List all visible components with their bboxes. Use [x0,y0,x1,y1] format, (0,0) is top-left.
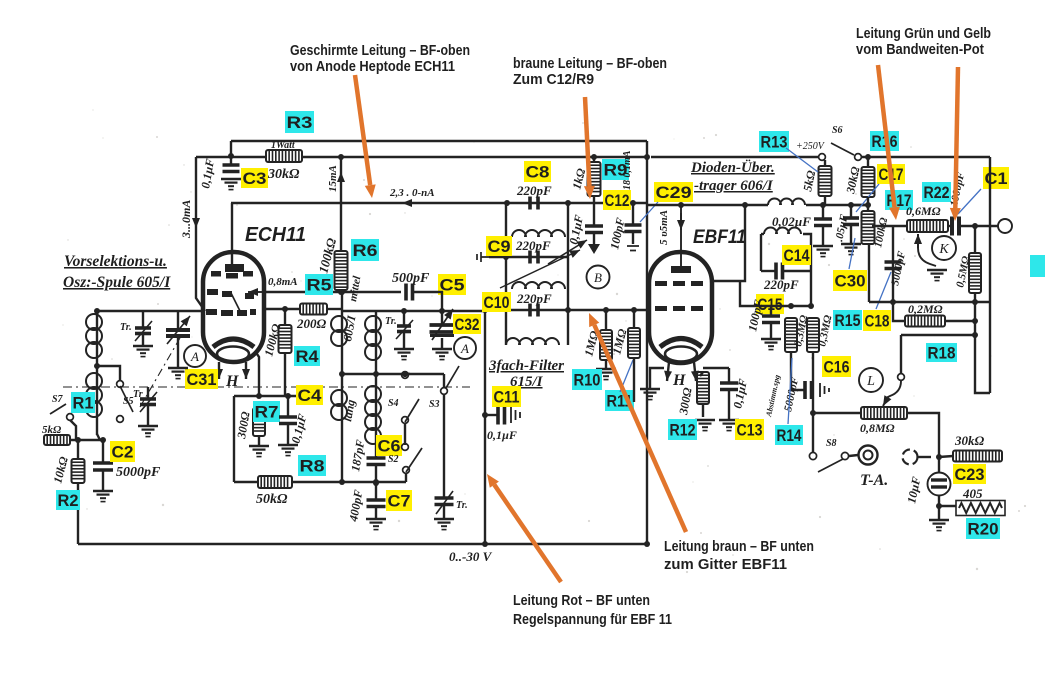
node rail342 y374 [339,371,345,377]
svg-text:ECH11: ECH11 [245,224,306,246]
current arrow 15mA [337,172,345,190]
gang circle A right [454,337,476,359]
wire row y311 mid [342,310,485,312]
tube ECH11 top cap [225,264,244,272]
wire sec loop left [760,234,762,271]
label R10 [572,369,602,390]
svg-text:C4: C4 [298,387,323,405]
tube ECH11 grid row2 [207,289,218,295]
wire coil bottom curve [97,434,100,440]
svg-text:R15: R15 [835,312,861,330]
node 0.2M right [972,318,978,324]
tube EBF11 top cap [671,205,691,273]
wire 100pF lead [770,306,772,316]
ground under varcap1 [168,368,188,379]
inductor filter1 [512,230,565,237]
switch S4 bottom [402,417,409,424]
wire trimmer2 bottom lead [147,405,149,425]
wire R11 down [633,358,635,402]
varcap1 arrow [167,316,190,344]
tube EBF11 grid dashes [655,281,667,286]
wire anode row y292 [264,291,401,293]
wire R17 lead down [868,244,870,302]
resistor R4 100kOhm [279,325,292,353]
label C23 [953,464,986,484]
svg-text:0,8MΩ: 0,8MΩ [860,421,895,435]
node C10 row left [482,307,488,313]
node rail376 join [373,479,379,485]
arrow to C12 [548,240,587,264]
wire R10 bottom [605,360,607,368]
label R6 [351,239,379,261]
node C29 top [630,200,636,206]
inductor diode secondary [764,228,801,235]
wire C12 bottom [593,233,595,245]
trimmer1 arrow [135,321,152,341]
node bus x647 [644,541,650,547]
C16 ground right [820,383,829,397]
tube ECH11 grid row3 [206,309,217,315]
wire row y305 filter to EBF [568,309,649,311]
label R4 [294,346,320,366]
resistor R7 300ohm [253,408,265,436]
wire left branch y366 [97,366,120,381]
node x823 junction [820,202,826,208]
wire C2 bottom lead [102,470,104,490]
svg-text:220pF: 220pF [515,238,551,253]
label C30 [833,270,867,291]
wire anode down to C15 row [740,281,745,306]
node 300ohm top [256,393,262,399]
wire 0.5M bottom [974,293,976,302]
switch S4 lever [405,399,419,422]
svg-text:Leitung braun – BF unten: Leitung braun – BF unten [664,538,814,555]
svg-text:C16: C16 [824,358,850,376]
wire C29 bottom [632,232,634,244]
wire R2 bottom to bus [77,483,79,544]
jack inner circle [864,451,873,460]
label C11 [492,386,521,407]
svg-text:S2: S2 [388,454,399,465]
label R22 [922,182,951,202]
wire 200ohm to coil rail [327,308,342,310]
annotation Leitung braun unten [664,538,814,573]
node C6C7 [373,480,379,486]
ground under R10 [596,369,616,380]
wire C14 left lead [761,270,776,272]
label R16 [870,131,899,151]
node input junction [75,437,81,443]
capacitor C12 0.1uF [585,226,603,233]
wire left coil rail lower [96,366,98,435]
svg-text:220pF: 220pF [763,277,799,292]
capacitor 1000pF [952,217,959,236]
inductor left lower [86,373,102,417]
switch S7 lever [50,404,66,414]
svg-text:S7: S7 [52,394,64,405]
svg-text:C1: C1 [985,170,1008,188]
ground under Tr4 [434,519,454,530]
node Tr3 tap [401,308,407,314]
wire S3 top lead [443,374,445,388]
wire jack2 to node [918,456,931,458]
wire Kbox left rail [892,226,894,302]
svg-text:T-A.: T-A. [860,472,888,489]
label C19 partial [983,167,1009,189]
svg-text:0,8mA: 0,8mA [268,276,298,288]
svg-text:C8: C8 [526,163,550,181]
variable capacitor C32 [430,325,455,332]
svg-text:R12: R12 [670,421,696,439]
tube EBF11 envelope [649,252,712,363]
svg-text:EBF11: EBF11 [693,227,746,248]
svg-text:S6: S6 [832,125,843,136]
svg-text:S5: S5 [123,396,134,407]
wire R4 top lead [284,309,286,325]
resistor R3 30kOhm 1Watt [266,150,302,162]
tube ECH11 cathode arrow left [215,362,223,379]
capacitor 0.02uF [814,219,832,226]
svg-text:B: B [594,270,602,285]
scan speckles [62,109,1026,573]
capacitor C6 187pF [367,458,386,465]
switch S2 lever [406,448,422,472]
capacitor C3 0.1uF [223,165,240,172]
wire R17 to pot rail [872,225,907,227]
svg-text:Dioden-Über.: Dioden-Über. [690,159,775,176]
C29 bottom tick [627,246,639,251]
wire 15mA drop x341 [340,157,342,292]
capacitor C18 5000pF [885,262,902,269]
pot 0.8M wiper arrow [883,395,891,406]
svg-text:0,6MΩ: 0,6MΩ [906,204,941,218]
current arrow 5mA [677,213,685,230]
ground EBF11 left [640,389,660,400]
inductor filter3 [506,338,559,345]
resistor 0.3MOhm b [807,318,819,352]
wire C13 lead [728,368,730,383]
capacitor C11 0.1uF [498,406,505,425]
inductor secondary lower [365,386,381,444]
wire trimmer1 top lead [142,311,144,327]
trimmer cap Tr2 [140,399,156,405]
node left junction y366 [94,363,100,369]
svg-text:C2: C2 [112,443,134,461]
resistor 30kOhm right [953,451,1002,462]
node filter row2 left [503,254,509,260]
label C14 [782,245,811,265]
wire S3 down [443,394,445,498]
wire left drop x196 [196,157,205,311]
svg-text:Tr.: Tr. [385,316,397,327]
svg-text:5000pF: 5000pF [116,465,161,480]
wire R16 to R17 [867,197,869,211]
svg-text:220pF: 220pF [516,291,552,306]
wire AVC vertical x975 [975,302,990,393]
wire EBF anode lead [712,205,745,281]
node x813 y413 [810,410,816,416]
resistor R20 zigzag [956,501,1005,516]
svg-text:S3: S3 [429,399,440,410]
ground under 300ohm [249,446,269,457]
capacitor C15 100pF [762,316,780,323]
svg-text:-trager 606/I: -trager 606/I [694,178,774,194]
potentiometer 0.6MOhm [907,220,948,232]
node 10uF top [936,454,942,460]
node C15 row b [808,303,814,309]
wire R9 to C12 [593,196,595,226]
tube ECH11 envelope [203,252,264,362]
wire R12 top [700,372,703,376]
wire diode row y205 [647,204,768,206]
svg-text:Regelspannung für EBF 11: Regelspannung für EBF 11 [513,611,672,628]
tube ECH11 diagonal [231,293,240,311]
resistor 0.2MOhm [905,316,945,327]
switch S6 lever [831,143,854,155]
wire input to coil [70,439,100,441]
node C11 row [482,412,488,418]
annotation Leitung rot [513,592,672,628]
svg-text:1Watt: 1Watt [271,140,296,151]
orange arrow braun unten [589,313,686,532]
capacitor C32 mid plate [430,334,454,337]
wire R11 top lead [633,310,635,328]
svg-text:220pF: 220pF [516,183,552,198]
label R2 [56,490,80,510]
node C15 row a [788,303,794,309]
switch S7 terminal [67,414,74,421]
wire 50k row [234,481,258,483]
node R6 bottom on y292 [338,289,344,295]
wire C5 to corner [413,292,442,311]
label C31 [185,369,218,389]
wire C4 lead [287,396,289,417]
svg-text:C18: C18 [865,312,890,330]
wire C3 stub [230,141,232,165]
node filter row3 right [565,307,571,313]
wiper to ground curve [918,248,936,266]
jack circle 2 [903,450,918,465]
svg-text:0,1µF: 0,1µF [487,428,517,442]
resistor 200ohm [300,304,327,315]
node rail376 y374 [373,371,379,377]
wire filter row2 [489,256,568,258]
label C32 [453,314,481,334]
capacitor C5 500pF [406,284,413,301]
C11 right hatch [511,407,520,423]
svg-text:R6: R6 [353,242,378,260]
svg-text:15mA: 15mA [327,165,339,192]
wire second rail y157 [196,156,647,158]
wire S6 to corner [861,156,990,158]
inductor filter2 [512,282,565,289]
circle L [859,368,883,392]
callout R13 [786,148,818,172]
current arrow on y203 [402,199,430,207]
right edge terminal circle [998,219,1012,233]
svg-text:C14: C14 [784,247,811,265]
node C5 corner on row [439,308,445,314]
label C13 [735,419,764,440]
label R11 [605,390,634,411]
svg-text:Tr.: Tr. [456,500,468,511]
label R3 [285,111,314,133]
svg-text:0,2MΩ: 0,2MΩ [908,302,943,316]
wire C4 bottom [287,424,289,444]
tube ECH11 heater arc [213,339,254,347]
wire trimmer1 bottom lead [142,334,144,345]
wire right rail x990 [989,157,991,393]
wire row y374 [342,373,444,375]
wire trimmer3 lead [403,311,405,326]
wire R9 top lead [593,157,595,162]
wire filter right rail [567,203,569,345]
capacitor .05uF [843,218,859,225]
wire row y205 to R16 [851,204,868,206]
switch S3 lever [446,366,459,388]
svg-text:R2: R2 [58,492,79,510]
switch S8 lever [818,459,843,472]
svg-text:C30: C30 [835,272,866,290]
label R17 [885,190,913,210]
svg-text:S4: S4 [388,398,399,409]
wire +250 rail [651,156,819,158]
label R5 [305,274,333,295]
wire C14 right lead [783,270,811,272]
label C4 [296,385,323,405]
node rail342 top [339,289,345,295]
capacitor C10 220pF [530,304,538,317]
node R16 R17 junction [865,202,871,208]
orange arrow gruen left [878,65,900,220]
wire 5k bottom lead [824,196,826,205]
switch S4 top [402,372,409,379]
svg-text:A: A [190,349,199,364]
node R11 tap [631,307,637,313]
capacitor C29 100pF [625,225,642,232]
wire left coil rail upper [96,311,98,366]
label R18 [926,343,957,362]
ground under C32 [432,349,452,360]
svg-text:C29: C29 [656,184,692,202]
capacitor C7 400pF [367,500,386,507]
label C2 [110,441,135,462]
svg-text:0..-30 V: 0..-30 V [449,549,493,564]
label R1 [71,392,95,413]
wire sec loop right [803,234,811,271]
wire R12 bottom [702,404,704,417]
resistor R10 1MOhm [600,330,612,360]
wire rail x376 [375,311,377,458]
wire C11 lead [485,414,497,416]
svg-text:C3: C3 [243,170,267,188]
tube EBF11 heater arc [660,339,702,348]
wire 10uF bottom [938,495,940,519]
tube EBF11 heater oval [665,347,697,362]
wire cap to right [959,225,998,227]
callout C18 [876,272,891,309]
svg-text:vom Bandweiten-Pot: vom Bandweiten-Pot [856,41,984,58]
ground under Tr3 [394,349,414,360]
inductor left upper [86,314,102,358]
filter tap symbol [477,252,489,262]
svg-text:R4: R4 [296,348,320,366]
svg-text:Geschirmte Leitung – BF-oben: Geschirmte Leitung – BF-oben [290,42,470,59]
capacitor C16 5000pF [805,381,812,399]
capacitor C9 220pF [530,251,538,264]
wire left coil top row y311 [97,310,203,312]
wire ECH11 top cap lead [231,203,233,264]
label C5 [438,274,466,295]
svg-text:R7: R7 [255,403,279,421]
svg-text:3fach-Filter: 3fach-Filter [488,358,564,374]
wire bottom bus [78,543,647,545]
orange arrow rot [487,474,561,582]
wire Tr4 bottom [443,505,445,518]
wire C32 bottom [441,338,443,348]
node R16 top [865,154,871,160]
svg-text:C32: C32 [455,316,480,334]
tube ECH11 heater oval [217,347,249,362]
ground under R12 [695,420,715,431]
node anode tap [742,202,748,208]
wire 30k lead [939,456,953,457]
wire C13 bottom [728,390,730,419]
wire EBF left ground lead [650,368,664,388]
capacitor 10uF electrolytic [928,473,951,496]
svg-text:R22: R22 [924,184,950,202]
wire 200ohm row y309 [264,308,300,310]
ground under C3 [221,179,241,190]
annotation Leitung gruen [856,25,991,58]
resistor R16 30kOhm [862,167,875,197]
label R20 partial [966,518,1000,539]
wire .05 branch [850,205,852,218]
wire pot to cap [948,225,952,227]
wire 100pF bottom [770,323,772,338]
svg-text:C13: C13 [737,421,763,439]
node box bottom left [890,299,896,305]
svg-text:R18: R18 [928,344,956,362]
callout R11 [620,360,633,392]
ground under Tr1 [133,346,153,357]
inductor diode transformer [768,199,805,205]
inductor secondary upper [365,316,381,360]
ground under .05uF [841,244,861,255]
wire trimmer2 top lead [147,387,149,398]
C12 bottom arrow [588,244,600,254]
wire filter left rail [505,203,507,345]
C32 arrow [432,309,453,340]
circle K [932,236,956,260]
label C6 [376,435,402,456]
svg-text:C9: C9 [488,238,511,256]
wire top rail y141 [231,140,647,142]
svg-text:C7: C7 [388,492,411,510]
label R13 [759,131,789,152]
node y203 filter tap [504,200,510,206]
wire rail x342 [341,292,343,482]
svg-text:R14: R14 [777,427,803,445]
label C8 [524,161,551,182]
wire sec down [810,271,812,306]
terminal above pot [898,374,905,381]
svg-text:2,3 . 0-nA: 2,3 . 0-nA [389,187,435,199]
current arrow triode anode [248,288,262,296]
ground under C13 [719,420,739,431]
wire 0.3Ma down to C16 [791,352,805,390]
svg-text:5 υ5mA: 5 υ5mA [658,210,670,245]
